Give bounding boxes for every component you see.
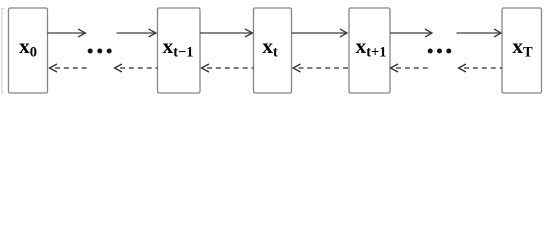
- node x0: [9, 8, 48, 93]
- node x_T: [502, 8, 542, 93]
- ellipsis dots left: [88, 49, 112, 54]
- forward arrow dots to x_{t-1}: [117, 29, 157, 37]
- reverse dashed arrow x_t to x_{t-1}: [202, 64, 254, 72]
- forward arrow x_{t-1} to x_t: [200, 29, 253, 37]
- forward arrow x0 to dots: [48, 29, 86, 37]
- reverse dashed arrow x_T to dots: [459, 64, 503, 72]
- node x_t: [254, 8, 292, 93]
- cropped box edge at far left: [2, 9, 4, 94]
- reverse dashed arrow dots to x0: [50, 64, 91, 72]
- ellipsis dots right: [428, 49, 452, 54]
- forward arrow x_t to x_{t+1}: [292, 29, 348, 37]
- forward arrow x_{t+1} to dots: [390, 29, 432, 37]
- node x_{t+1}: [349, 8, 390, 93]
- node x_{t-1}: [158, 8, 201, 93]
- forward arrow dots to x_T: [457, 29, 502, 37]
- reverse dashed arrow dots to x_{t+1}: [391, 64, 430, 72]
- reverse dashed arrow x_{t-1} to dots: [115, 64, 158, 72]
- reverse dashed arrow x_{t+1} to x_t: [293, 64, 349, 72]
